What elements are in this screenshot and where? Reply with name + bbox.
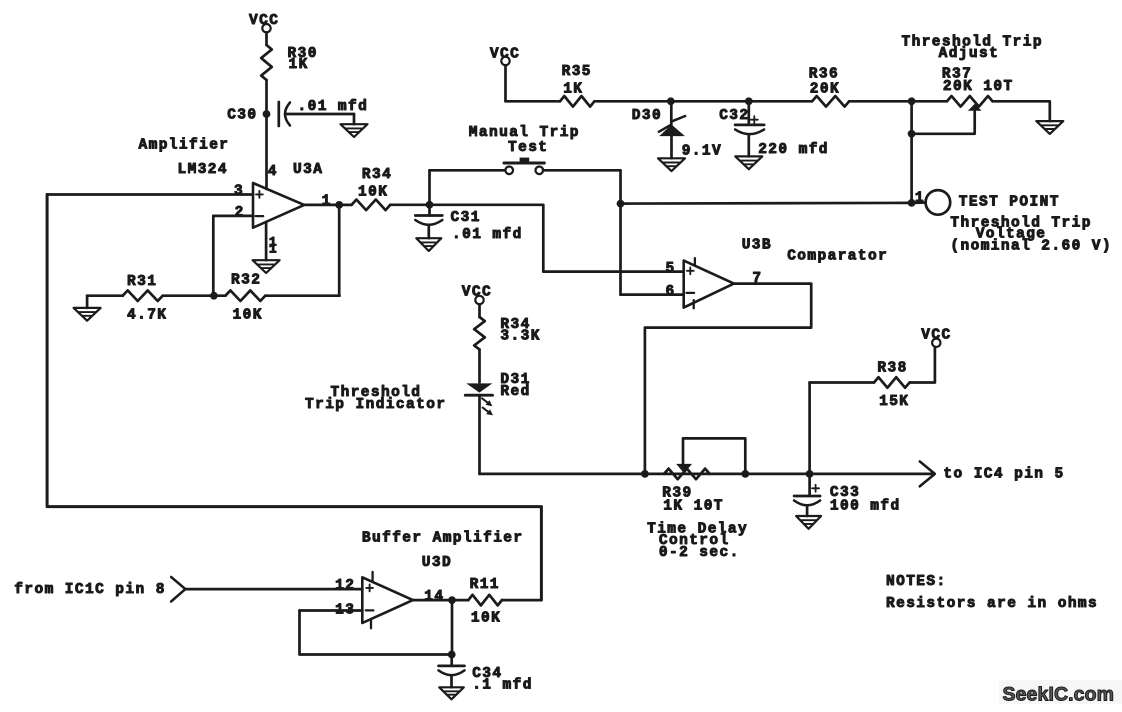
svg-text:VCC: VCC bbox=[921, 327, 951, 343]
svg-text:3.3K: 3.3K bbox=[500, 328, 540, 344]
svg-text:to IC4 pin 5: to IC4 pin 5 bbox=[943, 466, 1064, 482]
svg-text:R31: R31 bbox=[127, 274, 157, 290]
svg-text:3: 3 bbox=[234, 183, 244, 199]
svg-text:C31: C31 bbox=[451, 210, 481, 226]
svg-text:NOTES:: NOTES: bbox=[886, 574, 947, 590]
svg-text:D30: D30 bbox=[632, 108, 662, 124]
svg-text:Buffer Amplifier: Buffer Amplifier bbox=[362, 531, 524, 547]
svg-text:from IC1C pin 8: from IC1C pin 8 bbox=[14, 582, 166, 598]
svg-text:2: 2 bbox=[235, 205, 245, 221]
svg-text:10K: 10K bbox=[471, 610, 501, 626]
svg-text:1K: 1K bbox=[563, 81, 583, 97]
svg-text:R34: R34 bbox=[362, 167, 392, 183]
svg-text:R11: R11 bbox=[470, 577, 500, 593]
svg-text:12: 12 bbox=[335, 578, 355, 594]
svg-text:R36: R36 bbox=[809, 66, 839, 82]
svg-text:Trip Indicator: Trip Indicator bbox=[305, 397, 446, 413]
svg-text:5: 5 bbox=[666, 261, 676, 277]
svg-text:1: 1 bbox=[269, 241, 277, 256]
svg-text:.01 mfd: .01 mfd bbox=[452, 227, 523, 243]
svg-text:100 mfd: 100 mfd bbox=[830, 499, 901, 515]
svg-text:C30: C30 bbox=[227, 108, 257, 124]
svg-text:TEST POINT: TEST POINT bbox=[959, 194, 1060, 210]
svg-text:.1 mfd: .1 mfd bbox=[472, 678, 533, 694]
svg-text:.01 mfd: .01 mfd bbox=[298, 99, 369, 115]
svg-text:1: 1 bbox=[322, 193, 332, 209]
svg-text:10K: 10K bbox=[233, 307, 263, 323]
svg-text:(nominal 2.60 V): (nominal 2.60 V) bbox=[950, 238, 1112, 254]
svg-text:1K 10T: 1K 10T bbox=[663, 499, 724, 515]
svg-text:SeekIC.com: SeekIC.com bbox=[1003, 684, 1115, 706]
svg-text:20K 10T: 20K 10T bbox=[943, 79, 1014, 95]
svg-text:10K: 10K bbox=[358, 184, 388, 200]
svg-text:U3A: U3A bbox=[293, 162, 323, 178]
svg-text:9.1V: 9.1V bbox=[682, 143, 722, 159]
svg-text:Manual Trip: Manual Trip bbox=[469, 125, 580, 141]
svg-text:U3D: U3D bbox=[422, 555, 452, 571]
svg-text:Red: Red bbox=[500, 384, 530, 400]
svg-text:Resistors are in ohms: Resistors are in ohms bbox=[886, 596, 1098, 612]
svg-text:4: 4 bbox=[268, 164, 278, 180]
svg-text:20K: 20K bbox=[810, 82, 840, 98]
svg-text:1: 1 bbox=[915, 190, 925, 206]
svg-text:0-2 sec.: 0-2 sec. bbox=[659, 545, 740, 561]
svg-text:C32: C32 bbox=[719, 108, 749, 124]
svg-text:14: 14 bbox=[424, 589, 444, 605]
svg-text:6: 6 bbox=[666, 284, 676, 300]
svg-text:R35: R35 bbox=[562, 64, 592, 80]
svg-text:220 mfd: 220 mfd bbox=[758, 142, 829, 158]
svg-text:U3B: U3B bbox=[742, 238, 772, 254]
svg-text:Adjust: Adjust bbox=[939, 46, 1000, 62]
svg-text:4.7K: 4.7K bbox=[127, 307, 167, 323]
svg-text:R38: R38 bbox=[877, 360, 907, 376]
svg-text:Test: Test bbox=[508, 140, 548, 156]
svg-text:Comparator: Comparator bbox=[787, 248, 888, 264]
svg-text:1K: 1K bbox=[289, 57, 309, 73]
svg-text:Amplifier: Amplifier bbox=[139, 138, 230, 154]
svg-text:LM324: LM324 bbox=[178, 162, 229, 178]
svg-text:15K: 15K bbox=[879, 394, 909, 410]
svg-text:R32: R32 bbox=[231, 272, 261, 288]
